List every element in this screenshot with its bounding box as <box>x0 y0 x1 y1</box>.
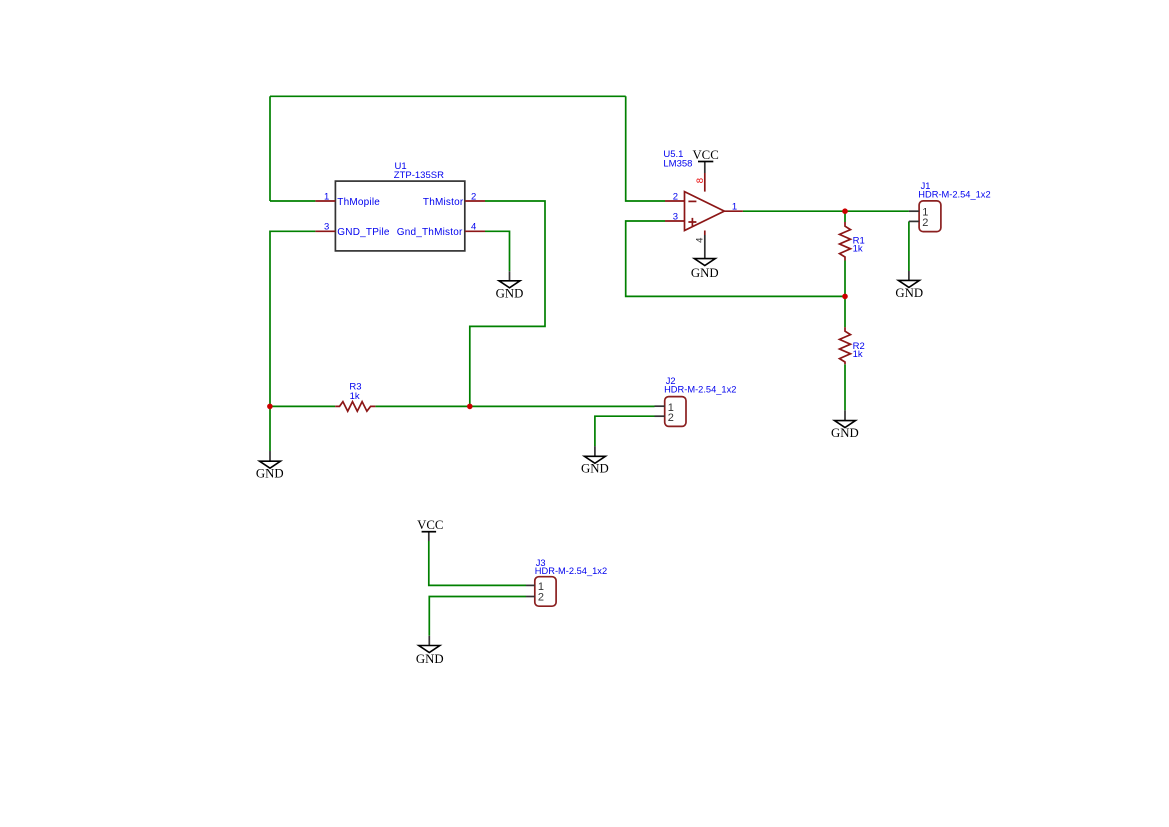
svg-text:2: 2 <box>922 217 928 229</box>
svg-text:1k: 1k <box>853 349 863 360</box>
junction dot at feedback <box>842 294 848 300</box>
connector J2 body <box>665 397 686 427</box>
wire J3 pin2 to GND <box>429 597 526 636</box>
wire R2 bottom to GND <box>844 364 846 410</box>
svg-text:8: 8 <box>695 178 706 183</box>
GND symbol below U1 pin4 <box>496 271 524 300</box>
wire junction to R2 <box>844 296 846 327</box>
resistor R3 <box>335 402 375 412</box>
wire U1 pin2 net down to junction <box>470 201 545 406</box>
svg-text:2: 2 <box>538 592 544 604</box>
op-amp power pin 8 red segment <box>704 173 706 192</box>
VCC symbol above op-amp <box>692 148 718 173</box>
resistor R2 <box>840 327 851 364</box>
GND symbol below J2 <box>581 446 609 475</box>
svg-text:1k: 1k <box>853 244 863 255</box>
J2 pin 2 <box>655 415 665 417</box>
svg-text:VCC: VCC <box>417 518 443 532</box>
svg-text:HDR-M-2.54_1x2: HDR-M-2.54_1x2 <box>535 566 607 576</box>
op-amp minus sign <box>688 200 696 202</box>
svg-text:Gnd_ThMistor: Gnd_ThMistor <box>397 227 463 238</box>
GND symbol left bottom <box>256 451 284 480</box>
svg-text:1: 1 <box>732 202 737 213</box>
svg-text:GND: GND <box>256 466 284 480</box>
GND symbol below J3 net <box>416 636 444 666</box>
component U1 ZTP-135SR body <box>335 181 464 251</box>
wire top horizontal net ThMopile to opamp <box>270 95 626 97</box>
svg-text:HDR-M-2.54_1x2: HDR-M-2.54_1x2 <box>664 384 736 394</box>
svg-text:GND: GND <box>691 266 719 280</box>
U1 pin 2 <box>465 200 485 202</box>
connector J3 body <box>535 577 556 607</box>
svg-text:2: 2 <box>673 191 678 202</box>
J1 pin 2 <box>909 220 919 222</box>
GND symbol below op-amp <box>691 235 719 280</box>
svg-text:2: 2 <box>471 191 476 202</box>
U1 pin 1 <box>315 200 335 202</box>
wire to U1 pin1 <box>270 200 315 202</box>
svg-text:ThMistor: ThMistor <box>423 197 464 208</box>
wire R1 bottom to feedback junction <box>844 261 846 297</box>
svg-text:VCC: VCC <box>692 148 718 162</box>
U1 pin 3 <box>315 230 335 232</box>
svg-text:LM358: LM358 <box>663 158 692 169</box>
connector J1 body <box>919 201 941 232</box>
wire opamp pin3 feedback net <box>626 221 845 296</box>
svg-text:1: 1 <box>324 191 329 202</box>
wire J2 pin2 to GND <box>595 416 655 446</box>
svg-text:HDR-M-2.54_1x2: HDR-M-2.54_1x2 <box>918 189 990 199</box>
wire R3 right to J2 pin1 <box>375 405 654 407</box>
J3 pin 2 <box>526 596 535 598</box>
wire junction to left GND <box>269 406 271 451</box>
junction dot left <box>267 404 273 410</box>
svg-text:1k: 1k <box>350 391 360 402</box>
svg-text:GND: GND <box>831 426 859 440</box>
svg-text:GND: GND <box>581 461 609 475</box>
op-amp plus sign <box>688 218 696 226</box>
op-amp U5.1 triangle <box>685 192 725 231</box>
svg-text:3: 3 <box>673 211 678 222</box>
wire U1 pin4 to GND <box>485 231 510 271</box>
svg-text:GND_TPile: GND_TPile <box>337 227 390 238</box>
wire VCC to J3 pin1 <box>429 541 526 585</box>
svg-text:2: 2 <box>668 412 674 424</box>
junction dot mid <box>467 404 473 410</box>
svg-text:ThMopile: ThMopile <box>337 197 380 208</box>
J3 pin 1 <box>526 584 535 586</box>
junction dot at output <box>842 208 848 214</box>
svg-text:3: 3 <box>324 222 329 233</box>
op-amp pin 3 <box>665 220 685 222</box>
GND symbol below R2 <box>831 410 859 440</box>
J1 pin 1 <box>909 210 919 212</box>
svg-text:ZTP-135SR: ZTP-135SR <box>394 170 444 181</box>
wire opamp output to J1 pin1 <box>743 210 909 212</box>
resistor R1 <box>840 222 851 261</box>
wire U1 pin3 to GND net <box>270 231 315 406</box>
VCC symbol above J3 net <box>417 518 443 541</box>
GND symbol below J1 <box>895 271 923 300</box>
wire right vertical to opamp pin2 <box>626 96 665 201</box>
svg-text:4: 4 <box>695 238 706 243</box>
J2 pin 1 <box>655 405 665 407</box>
wire output junction to R1 <box>844 211 846 222</box>
op-amp pin 2 <box>665 200 685 202</box>
svg-text:GND: GND <box>895 286 923 300</box>
U1 pin 4 <box>465 230 485 232</box>
svg-text:GND: GND <box>416 652 444 666</box>
wire R3 left <box>270 405 335 407</box>
op-amp power pin 4 segment <box>704 231 706 236</box>
svg-text:4: 4 <box>471 222 476 233</box>
wire J1 pin2 to GND <box>908 221 910 271</box>
op-amp output pin 1 <box>724 210 743 212</box>
wire left vertical <box>269 96 271 201</box>
svg-text:GND: GND <box>496 286 524 300</box>
